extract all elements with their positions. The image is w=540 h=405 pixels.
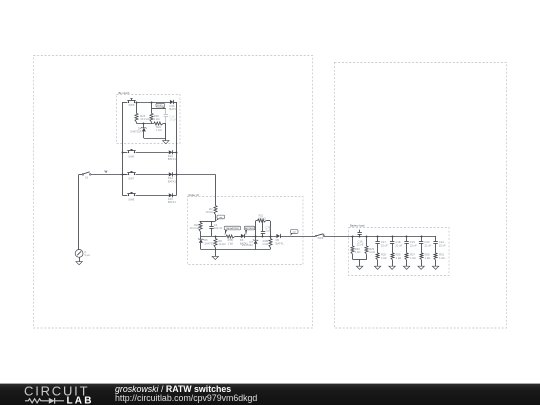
switch SW9: [315, 234, 324, 240]
node junction: [406, 236, 408, 238]
resistor R31: [434, 253, 445, 267]
resistor R7B: [226, 235, 235, 245]
resistor R6: [214, 236, 226, 250]
svg-text:SW6: SW6: [128, 154, 134, 158]
svg-text:http://circuitlab.com/cpv979vm: http://circuitlab.com/cpv979vm6dkgd: [115, 393, 257, 403]
svg-text:22 nF: 22 nF: [410, 243, 417, 247]
node flag SOM_c: [156, 103, 166, 109]
node junction: [176, 174, 178, 176]
node junction: [122, 152, 124, 154]
wire to battery load: [325, 236, 436, 238]
sub-box Battery load (dashed): [349, 223, 450, 275]
svg-text:SW9: SW9: [318, 236, 324, 240]
node junction: [262, 236, 264, 238]
capacitor C19: [404, 236, 417, 253]
resistor R24: [154, 122, 163, 132]
resistor R2: [206, 206, 218, 222]
svg-text:S1: S1: [85, 176, 89, 180]
svg-text:SOM_c: SOM_c: [157, 105, 164, 107]
diode D15: [168, 193, 177, 204]
ground: [374, 266, 380, 269]
capacitor C15: [164, 109, 177, 138]
svg-text:10 µF: 10 µF: [169, 117, 176, 121]
wire to ground: [144, 138, 166, 140]
svg-text:10 kΩ: 10 kΩ: [218, 242, 225, 246]
svg-text:10.2 kΩ: 10.2 kΩ: [190, 226, 199, 230]
wire top row: [122, 102, 127, 104]
wire bottom rail: [137, 123, 154, 125]
wire right bus: [176, 102, 178, 195]
node flag out: [216, 215, 225, 221]
ground: [418, 266, 424, 269]
zener diode D4: [130, 124, 146, 139]
svg-text:10.2 kΩ: 10.2 kΩ: [140, 117, 149, 121]
module box right (dashed): [335, 63, 507, 329]
svg-text:22 nF: 22 nF: [357, 243, 364, 247]
node flag THE BATTERY: [224, 226, 240, 235]
svg-text:BAT41: BAT41: [168, 157, 177, 161]
module box left (dashed): [34, 56, 313, 329]
node junction: [176, 152, 178, 154]
wire S1 lead: [79, 174, 82, 176]
diode D16: [170, 100, 179, 111]
resistor R29: [365, 236, 375, 259]
svg-text:1 kΩ: 1 kΩ: [262, 242, 268, 246]
svg-text:BAT41: BAT41: [170, 107, 179, 111]
svg-text:1 kΩ: 1 kΩ: [154, 117, 160, 121]
svg-text:1 kΩ: 1 kΩ: [369, 250, 375, 254]
sub-box Relay ctl (dashed): [188, 193, 304, 265]
wire loop: [255, 221, 257, 236]
svg-text:1 kΩ: 1 kΩ: [355, 250, 361, 254]
wire rail: [200, 221, 216, 223]
svg-text:W: W: [105, 170, 108, 174]
svg-text:10 kΩ: 10 kΩ: [259, 217, 266, 221]
svg-text:1 kΩ: 1 kΩ: [381, 256, 387, 260]
node flag BATTERY: [244, 226, 254, 235]
resistor R25: [376, 253, 387, 267]
svg-text:BATTERY: BATTERY: [245, 227, 255, 230]
wire branch bottom: [353, 259, 367, 261]
svg-text:22 nF: 22 nF: [424, 243, 431, 247]
svg-text:out: out: [219, 216, 222, 219]
sub-box BK clutch (dashed): [117, 91, 181, 144]
wire source to ground: [79, 257, 81, 261]
node junction: [352, 236, 354, 238]
wire drop to current source: [78, 174, 80, 249]
capacitor C18: [390, 236, 403, 253]
node junction: [392, 236, 394, 238]
wire row: [122, 174, 127, 176]
svg-text:Relay ctl: Relay ctl: [189, 193, 200, 197]
svg-text:1 kΩ: 1 kΩ: [228, 241, 234, 245]
wire drop to R26: [151, 102, 153, 113]
wire main: [201, 236, 226, 238]
svg-text:1N4733A: 1N4733A: [242, 243, 253, 247]
svg-text:Bk clutch: Bk clutch: [119, 91, 130, 95]
svg-text:1N4733A: 1N4733A: [204, 241, 215, 245]
resistor R28: [420, 253, 430, 267]
switch SW6: [127, 149, 135, 158]
svg-text:100 nF: 100 nF: [214, 226, 223, 230]
node junction: [377, 236, 379, 238]
capacitor C7B: [261, 221, 271, 236]
resistor R26: [391, 253, 401, 267]
zener diode D7: [242, 236, 259, 250]
wire S1 to bus: [91, 174, 127, 176]
svg-text:1N4733A: 1N4733A: [130, 130, 141, 134]
node flag out2: [290, 230, 298, 236]
svg-text:1 kΩ: 1 kΩ: [156, 128, 162, 132]
CircuitLab logo resistor squiggle and diode: [25, 398, 64, 404]
node junction: [366, 236, 368, 238]
wire top rail: [152, 108, 166, 110]
capacitor C21: [433, 236, 446, 253]
switch SW8: [127, 192, 135, 201]
ground: [389, 266, 395, 269]
wire left bus: [122, 102, 124, 195]
svg-text:BAT41: BAT41: [168, 200, 177, 204]
svg-text:1 µF: 1 µF: [265, 229, 271, 233]
ground: [212, 256, 218, 259]
wire row: [122, 152, 127, 154]
svg-text:BAT41: BAT41: [276, 241, 285, 245]
diode D9: [276, 234, 285, 245]
node junction: [151, 102, 153, 104]
resistor R27: [405, 253, 416, 267]
switch S1: [82, 172, 91, 180]
capacitor C4: [209, 221, 222, 236]
svg-text:1 kΩ: 1 kΩ: [410, 256, 416, 260]
svg-text:SW8: SW8: [128, 197, 134, 201]
capacitor C16: [357, 230, 364, 247]
svg-text:1 kΩ: 1 kΩ: [425, 256, 431, 260]
wire drop to R23: [136, 102, 138, 113]
svg-text:Battery load: Battery load: [350, 223, 365, 227]
wire ground stem: [215, 250, 217, 257]
wire row2 to relay: [177, 174, 216, 176]
zener diode D5: [198, 236, 215, 250]
diode D14: [168, 172, 177, 183]
wire bottom rail: [201, 249, 270, 251]
capacitor C17: [375, 236, 388, 253]
resistor R22: [190, 221, 202, 236]
node junction: [136, 102, 138, 104]
node junction: [359, 236, 361, 238]
ground: [432, 266, 438, 269]
svg-text:22 nF: 22 nF: [395, 243, 402, 247]
resistor R1B: [262, 236, 272, 250]
ground: [76, 262, 82, 265]
svg-text:1 kΩ: 1 kΩ: [439, 256, 445, 260]
svg-text:SW7: SW7: [128, 176, 134, 180]
node junction: [122, 174, 124, 176]
ground: [163, 141, 169, 144]
node junction: [421, 236, 423, 238]
svg-text:1 kΩ: 1 kΩ: [396, 256, 402, 260]
node junction: [270, 236, 272, 238]
svg-text:BAT41: BAT41: [168, 179, 177, 183]
svg-text:22 nF: 22 nF: [381, 243, 388, 247]
current source I1: [75, 250, 90, 258]
capacitor C20: [419, 236, 432, 253]
node junction: [215, 236, 217, 238]
switch SW7: [127, 171, 135, 180]
svg-text:5 µA: 5 µA: [84, 253, 90, 257]
svg-text:SW5: SW5: [129, 103, 135, 107]
switch SW5: [127, 99, 135, 107]
svg-text:LAB: LAB: [67, 395, 94, 405]
resistor R26: [150, 113, 160, 123]
node junction: [255, 236, 257, 238]
ground: [356, 266, 362, 269]
svg-text:out: out: [293, 230, 296, 233]
ground: [403, 266, 409, 269]
node junction: [143, 123, 145, 125]
diode D6: [240, 234, 249, 245]
diode D13: [168, 150, 177, 161]
resistor R23: [135, 113, 150, 123]
svg-text:10 kΩ: 10 kΩ: [206, 210, 213, 214]
svg-text:22 nF: 22 nF: [439, 243, 446, 247]
wire row: [122, 195, 127, 197]
resistor R11: [258, 213, 267, 222]
svg-text:THE BATTERY: THE BATTERY: [226, 227, 240, 230]
resistor R30: [351, 236, 360, 259]
